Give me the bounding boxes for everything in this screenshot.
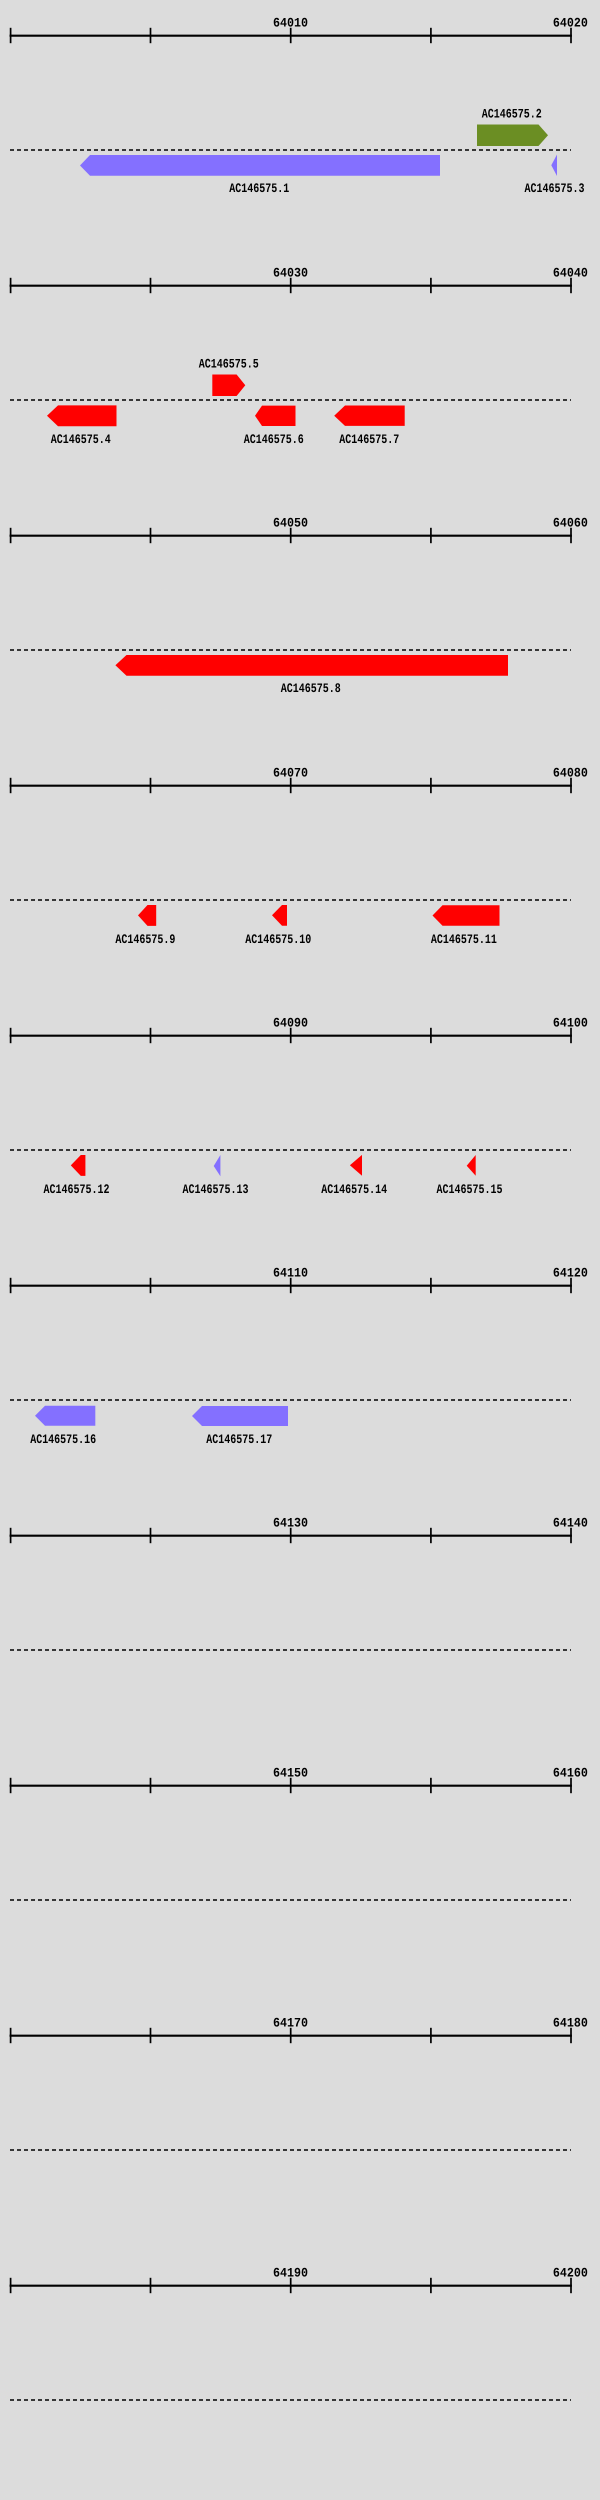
- ruler tick 64195: [430, 2278, 432, 2293]
- ruler tick 64130: [290, 1528, 292, 1543]
- gene label AC146575.6: [244, 432, 304, 447]
- ruler tick 64185: [150, 2278, 152, 2293]
- ruler tick 64140: [570, 1528, 572, 1543]
- ruler label 64130: [273, 1516, 308, 1531]
- svg-text:AC146575.12: AC146575.12: [44, 1182, 110, 1197]
- ruler line panel 6 (64100-64120): [10, 1285, 572, 1287]
- ruler tick 64095: [430, 1028, 432, 1043]
- gene label AC146575.1: [229, 181, 289, 196]
- svg-text:64170: 64170: [273, 2016, 308, 2031]
- gene arrow AC146575.5: [212, 375, 245, 397]
- gene arrow AC146575.6: [255, 406, 296, 426]
- ruler label 64050: [273, 516, 308, 531]
- dashed baseline panel 2: [10, 399, 571, 401]
- gene label AC146575.5: [199, 357, 259, 372]
- ruler tick 64115: [430, 1278, 432, 1293]
- ruler tick 64165: [150, 2028, 152, 2043]
- svg-text:64110: 64110: [273, 1266, 308, 1281]
- dashed baseline panel 9: [10, 2149, 571, 2151]
- gene label AC146575.11: [431, 932, 497, 947]
- ruler label 64060: [553, 516, 588, 531]
- svg-text:64120: 64120: [553, 1266, 588, 1281]
- svg-text:AC146575.10: AC146575.10: [245, 932, 311, 947]
- svg-text:AC146575.14: AC146575.14: [321, 1182, 387, 1197]
- ruler tick 64070: [290, 778, 292, 793]
- ruler label 64020: [553, 16, 588, 31]
- ruler tick 64125: [150, 1528, 152, 1543]
- ruler line panel 7 (64120-64140): [10, 1535, 572, 1537]
- ruler line panel 9 (64160-64180): [10, 2035, 572, 2037]
- ruler label 64140: [553, 1516, 588, 1531]
- ruler tick 64100: [570, 1028, 572, 1043]
- ruler tick 64135: [430, 1528, 432, 1543]
- ruler label 64190: [273, 2266, 308, 2281]
- svg-text:AC146575.9: AC146575.9: [115, 932, 175, 947]
- ruler tick 64080: [570, 778, 572, 793]
- gene label AC146575.17: [206, 1432, 272, 1447]
- svg-text:64140: 64140: [553, 1516, 588, 1531]
- ruler tick 64060: [10, 778, 12, 793]
- ruler label 64100: [553, 1016, 588, 1031]
- ruler tick 64020: [570, 28, 572, 43]
- ruler tick 64110: [290, 1278, 292, 1293]
- ruler label 64200: [553, 2266, 588, 2281]
- gene arrow AC146575.14: [350, 1155, 362, 1176]
- ruler label 64170: [273, 2016, 308, 2031]
- svg-text:AC146575.6: AC146575.6: [244, 432, 304, 447]
- ruler line panel 4 (64060-64080): [10, 785, 572, 787]
- svg-text:64020: 64020: [553, 16, 588, 31]
- ruler tick 64100: [10, 1278, 12, 1293]
- ruler label 64010: [273, 16, 308, 31]
- gene label AC146575.14: [321, 1182, 387, 1197]
- gene arrow AC146575.9: [138, 905, 156, 926]
- ruler tick 64120: [570, 1278, 572, 1293]
- dashed baseline panel 1: [10, 149, 571, 151]
- gene arrow AC146575.1: [80, 155, 440, 176]
- gene arrow AC146575.11: [433, 905, 500, 926]
- gene label AC146575.3: [525, 181, 585, 196]
- ruler tick 64090: [290, 1028, 292, 1043]
- gene label AC146575.9: [115, 932, 175, 947]
- ruler tick 64145: [150, 1778, 152, 1793]
- svg-text:64190: 64190: [273, 2266, 308, 2281]
- gene arrow AC146575.7: [334, 406, 405, 426]
- gene arrow AC146575.16: [35, 1406, 95, 1426]
- svg-text:AC146575.13: AC146575.13: [183, 1182, 249, 1197]
- ruler tick 64105: [150, 1278, 152, 1293]
- svg-text:64030: 64030: [273, 266, 308, 281]
- svg-text:64070: 64070: [273, 766, 308, 781]
- ruler tick 64200: [570, 2278, 572, 2293]
- svg-text:64100: 64100: [553, 1016, 588, 1031]
- gene label AC146575.2: [482, 106, 542, 121]
- dashed baseline panel 7: [10, 1649, 571, 1651]
- gene arrow AC146575.17: [192, 1406, 288, 1426]
- ruler tick 64010: [290, 28, 292, 43]
- svg-text:AC146575.3: AC146575.3: [525, 181, 585, 196]
- gene label AC146575.10: [245, 932, 311, 947]
- ruler tick 64155: [430, 1778, 432, 1793]
- ruler tick 64170: [290, 2028, 292, 2043]
- ruler tick 64075: [430, 778, 432, 793]
- ruler label 64030: [273, 266, 308, 281]
- dashed baseline panel 4: [10, 899, 571, 901]
- ruler label 64080: [553, 766, 588, 781]
- svg-text:AC146575.15: AC146575.15: [437, 1182, 503, 1197]
- ruler tick 64015: [430, 28, 432, 43]
- ruler tick 64000: [10, 28, 12, 43]
- gene label AC146575.7: [339, 432, 399, 447]
- svg-text:AC146575.4: AC146575.4: [51, 432, 111, 447]
- gene arrow AC146575.3: [551, 155, 557, 177]
- gene label AC146575.12: [44, 1182, 110, 1197]
- ruler label 64040: [553, 266, 588, 281]
- svg-text:64050: 64050: [273, 516, 308, 531]
- ruler label 64090: [273, 1016, 308, 1031]
- dashed baseline panel 5: [10, 1149, 571, 1151]
- ruler tick 64065: [150, 778, 152, 793]
- ruler label 64150: [273, 1766, 308, 1781]
- gene label AC146575.15: [437, 1182, 503, 1197]
- ruler tick 64080: [10, 1028, 12, 1043]
- ruler line panel 1 (64000-64020): [10, 35, 572, 37]
- gene label AC146575.8: [281, 681, 341, 696]
- ruler tick 64150: [290, 1778, 292, 1793]
- ruler line panel 10 (64180-64200): [10, 2285, 572, 2287]
- ruler label 64120: [553, 1266, 588, 1281]
- ruler tick 64035: [430, 278, 432, 293]
- svg-text:AC146575.16: AC146575.16: [30, 1432, 96, 1447]
- svg-text:AC146575.17: AC146575.17: [206, 1432, 272, 1447]
- ruler tick 64025: [150, 278, 152, 293]
- gene arrow AC146575.13: [214, 1155, 221, 1176]
- ruler tick 64140: [10, 1778, 12, 1793]
- ruler tick 64005: [150, 28, 152, 43]
- svg-text:AC146575.7: AC146575.7: [339, 432, 399, 447]
- ruler label 64180: [553, 2016, 588, 2031]
- ruler line panel 5 (64080-64100): [10, 1035, 572, 1037]
- ruler tick 64045: [150, 528, 152, 543]
- svg-text:64080: 64080: [553, 766, 588, 781]
- svg-text:64180: 64180: [553, 2016, 588, 2031]
- ruler tick 64160: [10, 2028, 12, 2043]
- ruler tick 64180: [10, 2278, 12, 2293]
- dashed baseline panel 8: [10, 1899, 571, 1901]
- ruler tick 64085: [150, 1028, 152, 1043]
- ruler tick 64180: [570, 2028, 572, 2043]
- ruler tick 64040: [570, 278, 572, 293]
- dashed baseline panel 6: [10, 1399, 571, 1401]
- ruler tick 64055: [430, 528, 432, 543]
- gene arrow AC146575.8: [115, 655, 508, 676]
- ruler line panel 2 (64020-64040): [10, 285, 572, 287]
- svg-text:AC146575.8: AC146575.8: [281, 681, 341, 696]
- gene arrow AC146575.12: [71, 1155, 86, 1176]
- svg-text:AC146575.5: AC146575.5: [199, 357, 259, 372]
- svg-text:64200: 64200: [553, 2266, 588, 2281]
- ruler line panel 3 (64040-64060): [10, 535, 572, 537]
- ruler label 64110: [273, 1266, 308, 1281]
- ruler tick 64040: [10, 528, 12, 543]
- svg-text:AC146575.11: AC146575.11: [431, 932, 497, 947]
- dashed baseline panel 10: [10, 2399, 571, 2401]
- gene label AC146575.4: [51, 432, 111, 447]
- gene label AC146575.16: [30, 1432, 96, 1447]
- gene arrow AC146575.2: [477, 125, 548, 147]
- ruler tick 64120: [10, 1528, 12, 1543]
- svg-text:AC146575.2: AC146575.2: [482, 106, 542, 121]
- svg-text:64040: 64040: [553, 266, 588, 281]
- ruler tick 64060: [570, 528, 572, 543]
- ruler tick 64175: [430, 2028, 432, 2043]
- svg-text:64160: 64160: [553, 1766, 588, 1781]
- ruler label 64160: [553, 1766, 588, 1781]
- svg-text:64130: 64130: [273, 1516, 308, 1531]
- ruler tick 64190: [290, 2278, 292, 2293]
- gene label AC146575.13: [183, 1182, 249, 1197]
- ruler tick 64020: [10, 278, 12, 293]
- gene arrow AC146575.10: [272, 905, 287, 926]
- svg-text:64060: 64060: [553, 516, 588, 531]
- svg-text:64010: 64010: [273, 16, 308, 31]
- ruler label 64070: [273, 766, 308, 781]
- ruler line panel 8 (64140-64160): [10, 1785, 572, 1787]
- svg-text:64090: 64090: [273, 1016, 308, 1031]
- ruler tick 64160: [570, 1778, 572, 1793]
- gene arrow AC146575.4: [47, 405, 117, 426]
- gene arrow AC146575.15: [467, 1155, 476, 1176]
- dashed baseline panel 3: [10, 649, 571, 651]
- svg-text:64150: 64150: [273, 1766, 308, 1781]
- svg-text:AC146575.1: AC146575.1: [229, 181, 289, 196]
- ruler tick 64050: [290, 528, 292, 543]
- ruler tick 64030: [290, 278, 292, 293]
